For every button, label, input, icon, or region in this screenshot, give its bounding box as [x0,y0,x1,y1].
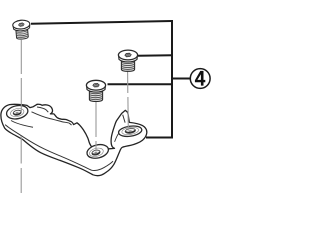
left hole ring outer [5,104,29,121]
callout circle 4 [190,69,210,89]
left hole counterbore [10,107,25,117]
centre hole bore [91,149,100,156]
wire from screw B2 to bus [138,54,172,56]
bracket arm top-face line [32,112,72,125]
leader line from screw B2 to right hole [127,72,129,94]
centre hole dot [94,152,97,154]
left hole shadow crescent [13,112,21,114]
vertical bus line [171,20,173,138]
bracket (caliper mount plate) [1,104,147,176]
leader line from screw B3 to centre hole [95,100,97,137]
bracket chamfer line along bottom face [5,125,113,171]
centre lobe boss ring [86,142,110,160]
wire from screw B1 to vertical bus [31,21,172,24]
callout connector lines [31,20,190,138]
wire from screw B3 to bus [108,83,173,85]
centre hole shadow crescent [92,152,100,154]
centre hole counterbore [89,147,105,158]
wire from bus to callout 4 [172,78,190,80]
tab notch line [37,107,48,112]
bracket boss base line left [11,121,33,128]
numeral 4 [195,71,205,86]
right hole bore [125,128,136,134]
right hole dot [129,130,132,132]
screw B2 [118,50,137,71]
leader line from screw B1 to left hole [21,40,128,193]
wire from bracket to bus [146,137,173,139]
right boss base line [115,133,119,142]
left hole bore [13,110,22,116]
bracket outer outline [1,104,147,175]
ear fold line [123,115,125,123]
right hole ring outer [118,125,143,138]
screw B1 [12,20,31,40]
left hole centre [16,112,19,114]
right hole shadow crescent [126,130,136,132]
screw B3 [86,80,105,101]
right hole counterbore [121,126,139,135]
